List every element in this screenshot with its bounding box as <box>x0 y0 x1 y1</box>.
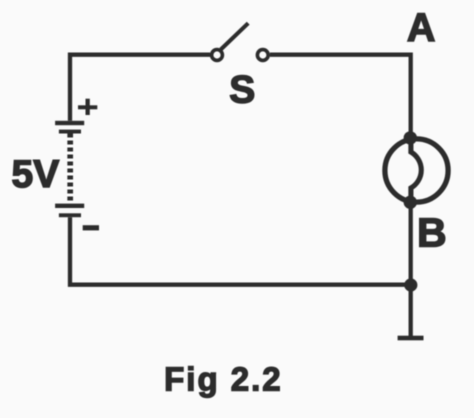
switch S: left contact circle <box>212 50 223 61</box>
wire junction down to ground <box>409 285 413 337</box>
wire top-left from battery up and across to switch <box>70 55 210 121</box>
svg-text:Fig 2.2: Fig 2.2 <box>164 361 283 398</box>
junction dot bottom rail <box>404 278 417 291</box>
wire bottom run and left rail up to battery <box>70 217 411 284</box>
battery positive plate (long) <box>55 121 84 125</box>
svg-text:S: S <box>229 68 255 111</box>
switch S: right contact circle <box>257 50 268 61</box>
svg-text:A: A <box>407 6 436 50</box>
junction dot at lamp bottom (node B) <box>404 196 417 209</box>
svg-text:B: B <box>417 209 447 255</box>
battery plate 3 (long) <box>55 204 84 208</box>
ground bar <box>398 336 424 341</box>
lamp filament curve <box>411 140 421 201</box>
switch S: lever arm <box>221 23 248 49</box>
svg-text:5V: 5V <box>12 153 60 196</box>
wire lamp bottom to junction <box>409 200 413 287</box>
battery plate 2 (short) <box>59 130 81 134</box>
minus sign <box>83 225 99 230</box>
junction dot at lamp top (node below A) <box>404 131 417 144</box>
plus sign <box>78 99 97 115</box>
battery dotted cell line <box>67 134 73 204</box>
wire from switch right to node A corner and down to lamp <box>270 55 411 140</box>
battery negative plate (short) <box>59 213 81 217</box>
lamp L: outer circle <box>385 139 448 202</box>
